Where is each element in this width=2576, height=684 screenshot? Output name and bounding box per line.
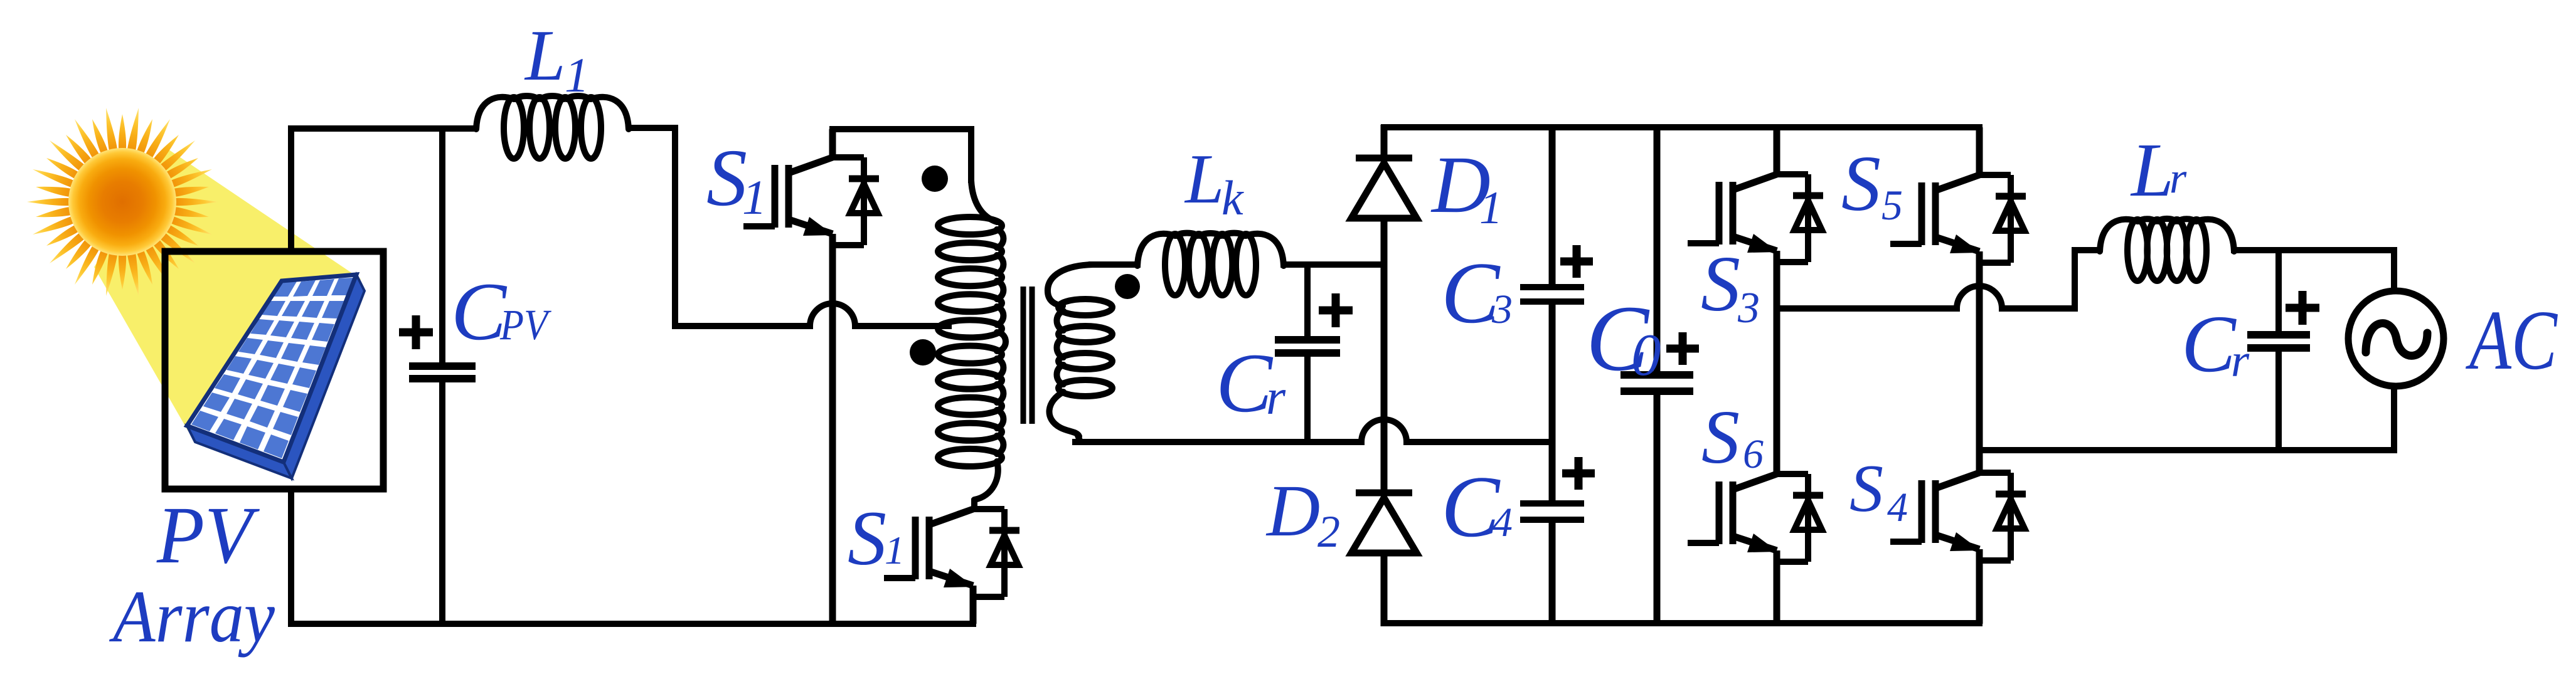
svg-text:1: 1 <box>885 528 905 572</box>
svg-text:S: S <box>848 495 886 581</box>
svg-text:1: 1 <box>742 170 767 224</box>
svg-text:4: 4 <box>1492 500 1513 545</box>
svg-text:S: S <box>1850 451 1883 526</box>
svg-text:S: S <box>1841 140 1881 228</box>
svg-text:C: C <box>2181 299 2237 389</box>
svg-text:C: C <box>1216 337 1274 430</box>
svg-text:4: 4 <box>1887 485 1908 530</box>
svg-text:r: r <box>2169 154 2187 203</box>
svg-text:k: k <box>1221 171 1244 225</box>
svg-text:1: 1 <box>565 48 589 102</box>
svg-text:0: 0 <box>1631 322 1661 388</box>
svg-text:S: S <box>1701 241 1740 328</box>
svg-text:PV: PV <box>156 490 260 581</box>
svg-text:AC: AC <box>2466 293 2558 387</box>
svg-text:1: 1 <box>1479 182 1503 234</box>
svg-text:r: r <box>1266 370 1286 425</box>
svg-text:3: 3 <box>1737 284 1760 332</box>
svg-text:PV: PV <box>499 301 551 349</box>
svg-text:S: S <box>706 133 747 223</box>
svg-text:S: S <box>1701 395 1740 480</box>
svg-text:C: C <box>451 265 508 357</box>
svg-text:5: 5 <box>1881 181 1903 229</box>
svg-text:2: 2 <box>1317 507 1340 557</box>
svg-text:6: 6 <box>1743 431 1764 477</box>
svg-text:L: L <box>524 16 566 96</box>
svg-text:L: L <box>1184 140 1224 218</box>
svg-text:D: D <box>1265 470 1320 552</box>
svg-text:Array: Array <box>109 575 275 658</box>
svg-text:r: r <box>2231 335 2250 387</box>
svg-text:L: L <box>2130 128 2174 213</box>
svg-text:3: 3 <box>1491 287 1513 332</box>
